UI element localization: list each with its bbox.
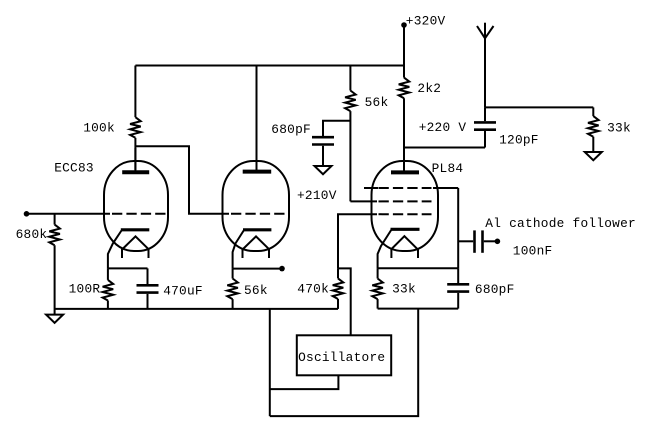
wire ground rail drop — [269, 309, 271, 416]
svg-text:PL84: PL84 — [432, 161, 464, 176]
tube V2 cathode — [378, 229, 420, 268]
svg-text:680pF: 680pF — [475, 282, 515, 297]
tube V2 grid1 dashes — [379, 213, 432, 215]
node +320V supply dot — [401, 13, 445, 28]
tube V1a ECC83 triode envelope — [104, 161, 168, 251]
capacitor 680pF cathode — [447, 268, 514, 308]
ground symbol 680pF — [315, 166, 332, 174]
svg-text:470uF: 470uF — [163, 283, 203, 298]
wire antenna rail — [485, 106, 593, 108]
tube V2 grid3 dashes — [364, 187, 458, 189]
resistor 470k — [297, 268, 343, 309]
tube V2 heater — [391, 236, 418, 258]
tube V1b grid dashes — [231, 213, 285, 215]
node output dot — [495, 239, 501, 245]
wire node to oscillator — [338, 268, 351, 335]
wire tube2 cathode stub — [233, 268, 282, 270]
svg-text:120pF: 120pF — [499, 133, 539, 148]
resistor 100R — [69, 268, 114, 309]
svg-text:+220 V: +220 V — [419, 120, 467, 135]
ground symbol left — [46, 315, 63, 323]
svg-text:680pF: 680pF — [271, 122, 311, 137]
resistor 680k — [16, 214, 60, 315]
node tube2 cathode dot — [279, 266, 285, 272]
wire PL84 cathode top rail — [378, 267, 459, 269]
svg-text:Al cathode follower: Al cathode follower — [485, 216, 636, 231]
tube V1b heater — [243, 236, 270, 258]
wire PL84 anode to 120pF — [404, 147, 485, 149]
svg-text:ECC83: ECC83 — [54, 160, 94, 175]
tube V1a cathode — [108, 230, 149, 269]
tube V1b ECC83 triode envelope — [223, 161, 290, 251]
wire 56k to PL84 grid1 — [350, 200, 377, 202]
wire +320V stub — [403, 25, 405, 66]
wire PL84 cathode bottom rail — [378, 308, 459, 310]
oscillator box — [297, 335, 391, 375]
wire bottom return — [270, 309, 418, 417]
svg-text:56k: 56k — [365, 95, 389, 110]
wire ground rail — [55, 308, 338, 310]
wire tube1 anode to tube2 grid — [135, 146, 229, 214]
svg-text:+210V: +210V — [297, 188, 337, 203]
antenna — [477, 23, 494, 108]
node input junction dot — [24, 211, 30, 217]
tube V1b cathode — [233, 230, 272, 269]
svg-text:33k: 33k — [392, 282, 416, 297]
resistor 33k cathode — [372, 268, 416, 308]
tube V1a heater — [122, 236, 149, 258]
tube V2 anode — [391, 148, 419, 172]
capacitor 100nF — [458, 230, 552, 258]
wire tube1 cathode row — [108, 267, 148, 269]
svg-text:470k: 470k — [297, 282, 329, 297]
capacitor 120pF — [474, 107, 539, 147]
svg-text:33k: 33k — [607, 120, 631, 135]
svg-text:2k2: 2k2 — [417, 81, 441, 96]
wire top supply rail — [135, 65, 404, 67]
wire grid3 tie down to cathode rail — [457, 188, 459, 268]
svg-text:100R: 100R — [69, 282, 101, 297]
resistor 56k cathode — [227, 269, 268, 309]
resistor 33k right — [588, 107, 631, 152]
resistor 100k — [83, 66, 141, 173]
tube V1b anode — [243, 66, 272, 172]
tube V1a anode — [122, 148, 149, 172]
tube V1a grid dashes — [112, 213, 167, 215]
svg-text:+320V: +320V — [406, 13, 446, 28]
wire PL84 grid1(bottom dash) to 470k node — [338, 214, 377, 268]
tube V2 PL84 pentode envelope — [372, 161, 439, 251]
capacitor 680pF grid — [271, 121, 350, 166]
svg-text:100nF: 100nF — [513, 243, 553, 258]
ground symbol right — [585, 152, 602, 160]
svg-text:56k: 56k — [244, 283, 268, 298]
wire input to tube1 grid — [27, 213, 111, 215]
resistor 2k2 — [399, 66, 441, 173]
svg-text:680k: 680k — [16, 227, 48, 242]
tube V2 grid2 dashes — [379, 200, 432, 202]
wire oscillator bottom — [270, 375, 339, 389]
svg-text:100k: 100k — [83, 120, 115, 135]
resistor 56k upper — [345, 66, 388, 202]
svg-text:Oscillatore: Oscillatore — [298, 350, 385, 365]
capacitor 470uF — [137, 268, 203, 309]
